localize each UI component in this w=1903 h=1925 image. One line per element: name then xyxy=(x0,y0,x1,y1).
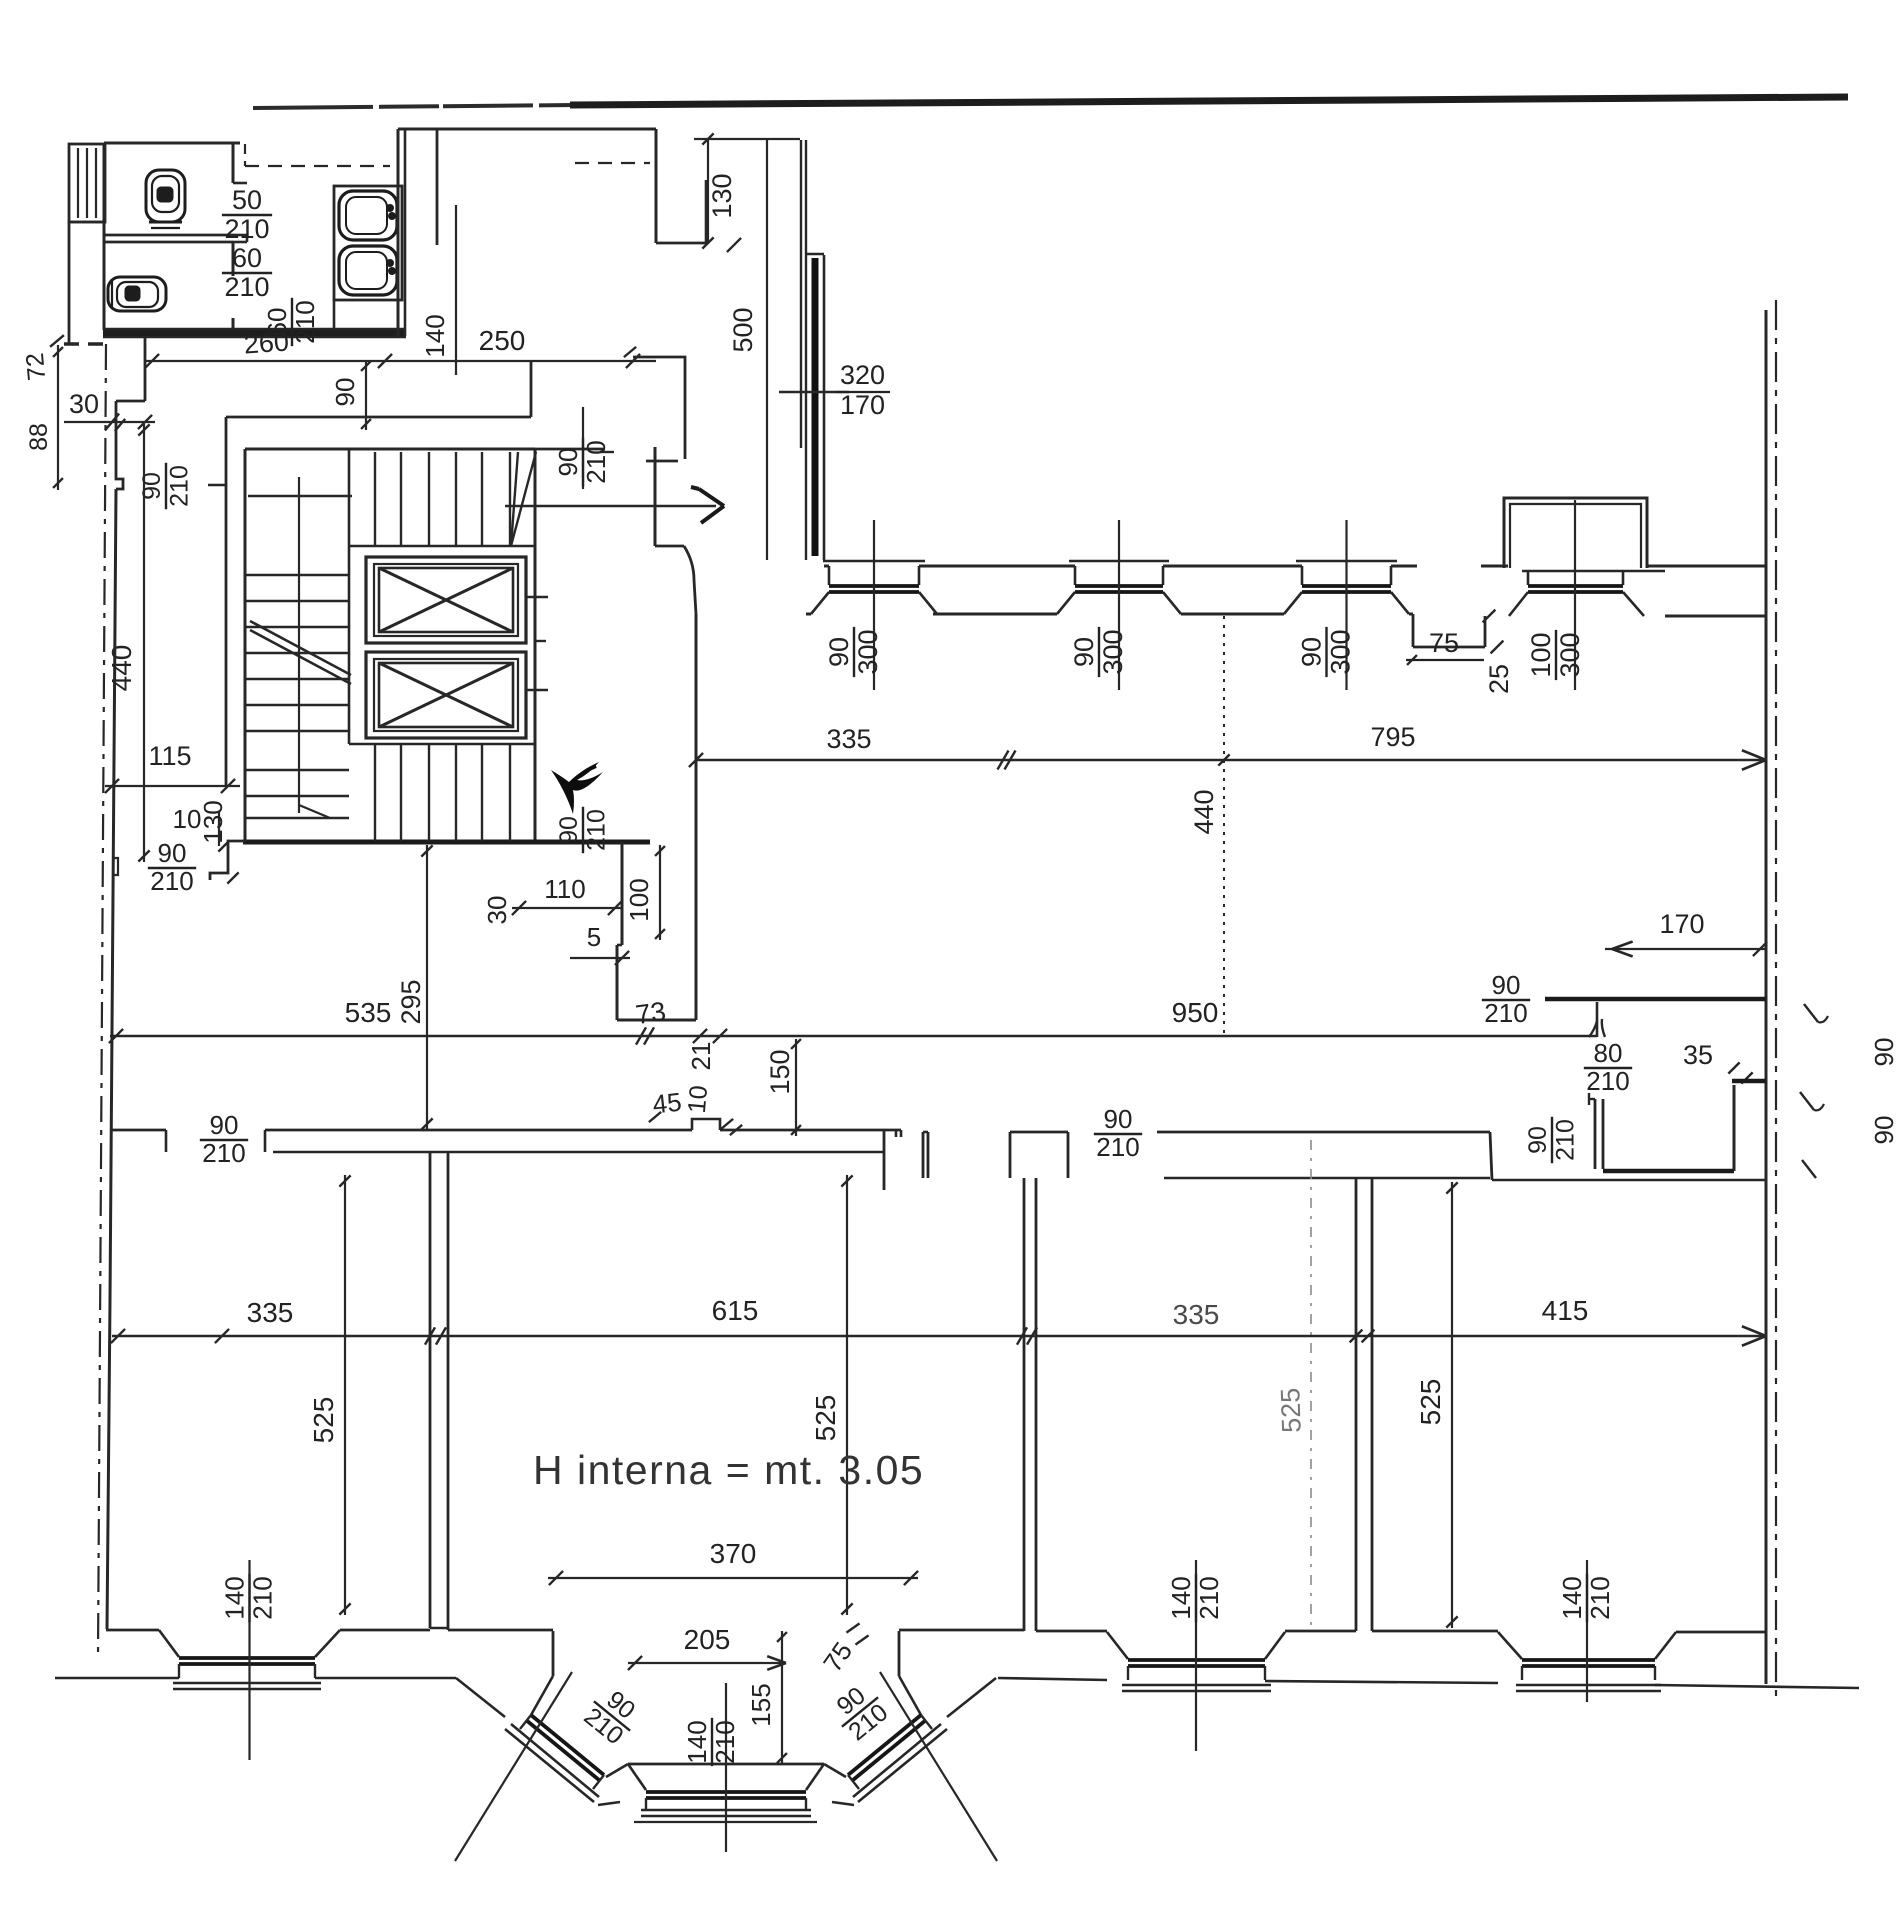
svg-text:525: 525 xyxy=(1275,1387,1307,1433)
svg-text:10: 10 xyxy=(683,1084,713,1114)
svg-text:80: 80 xyxy=(1594,1038,1623,1068)
svg-text:295: 295 xyxy=(396,979,426,1024)
svg-text:60: 60 xyxy=(232,243,262,273)
svg-text:90: 90 xyxy=(1524,1126,1552,1154)
svg-text:25: 25 xyxy=(1484,664,1514,694)
svg-text:100: 100 xyxy=(624,878,654,921)
svg-text:210: 210 xyxy=(1484,998,1527,1028)
svg-text:90: 90 xyxy=(553,448,583,477)
svg-text:50: 50 xyxy=(232,185,262,215)
svg-text:335: 335 xyxy=(826,724,871,754)
svg-text:30: 30 xyxy=(69,389,99,419)
svg-text:155: 155 xyxy=(746,1683,776,1726)
svg-text:90: 90 xyxy=(210,1110,239,1140)
svg-text:210: 210 xyxy=(582,809,610,851)
svg-text:140: 140 xyxy=(1166,1576,1196,1619)
svg-text:335: 335 xyxy=(1173,1299,1220,1330)
svg-text:H interna = mt. 3.05: H interna = mt. 3.05 xyxy=(533,1447,924,1493)
svg-text:21: 21 xyxy=(686,1042,716,1071)
svg-text:90: 90 xyxy=(824,637,854,667)
svg-text:440: 440 xyxy=(1189,789,1219,834)
svg-text:90: 90 xyxy=(555,816,583,844)
svg-text:260: 260 xyxy=(243,326,290,359)
svg-text:72: 72 xyxy=(21,352,51,382)
svg-text:90: 90 xyxy=(1869,1116,1899,1145)
svg-text:130: 130 xyxy=(707,173,737,218)
svg-text:615: 615 xyxy=(712,1295,759,1326)
svg-text:210: 210 xyxy=(1551,1119,1579,1161)
svg-text:45: 45 xyxy=(651,1087,683,1120)
svg-text:950: 950 xyxy=(1172,997,1219,1028)
svg-text:210: 210 xyxy=(1096,1132,1139,1162)
svg-text:440: 440 xyxy=(106,645,137,692)
svg-text:210: 210 xyxy=(165,465,193,507)
svg-text:795: 795 xyxy=(1370,722,1415,752)
svg-text:370: 370 xyxy=(710,1538,757,1569)
svg-text:205: 205 xyxy=(684,1624,731,1655)
svg-text:90: 90 xyxy=(1104,1104,1133,1134)
svg-text:525: 525 xyxy=(810,1395,841,1442)
svg-text:415: 415 xyxy=(1542,1295,1589,1326)
svg-text:73: 73 xyxy=(634,996,668,1030)
svg-text:210: 210 xyxy=(248,1576,278,1619)
svg-text:210: 210 xyxy=(1585,1576,1615,1619)
svg-text:170: 170 xyxy=(1659,909,1704,939)
svg-text:110: 110 xyxy=(544,874,585,904)
svg-text:500: 500 xyxy=(728,307,758,352)
svg-text:210: 210 xyxy=(224,214,269,244)
svg-text:100: 100 xyxy=(1526,632,1556,677)
svg-text:140: 140 xyxy=(420,314,450,357)
svg-text:210: 210 xyxy=(1194,1576,1224,1619)
svg-text:35: 35 xyxy=(1683,1040,1713,1070)
svg-text:300: 300 xyxy=(1325,629,1355,674)
svg-text:88: 88 xyxy=(25,423,53,451)
svg-text:140: 140 xyxy=(220,1576,250,1619)
svg-text:90: 90 xyxy=(138,472,166,500)
svg-text:535: 535 xyxy=(345,997,392,1028)
svg-text:300: 300 xyxy=(1555,632,1585,677)
svg-text:210: 210 xyxy=(290,300,320,343)
svg-text:90: 90 xyxy=(330,378,360,407)
svg-text:250: 250 xyxy=(479,325,526,356)
svg-text:210: 210 xyxy=(224,272,269,302)
svg-text:210: 210 xyxy=(202,1138,245,1168)
svg-text:90: 90 xyxy=(1869,1038,1899,1067)
svg-text:300: 300 xyxy=(1098,629,1128,674)
svg-text:300: 300 xyxy=(853,629,883,674)
svg-text:75: 75 xyxy=(1429,628,1459,658)
svg-text:90: 90 xyxy=(158,838,187,868)
svg-text:525: 525 xyxy=(308,1397,339,1444)
svg-text:130: 130 xyxy=(198,800,228,843)
svg-text:140: 140 xyxy=(1557,1576,1587,1619)
svg-text:90: 90 xyxy=(1492,970,1521,1000)
svg-text:90: 90 xyxy=(1069,637,1099,667)
svg-text:320: 320 xyxy=(840,360,885,390)
svg-text:210: 210 xyxy=(150,866,193,896)
svg-text:335: 335 xyxy=(247,1297,294,1328)
svg-text:525: 525 xyxy=(1415,1379,1446,1426)
svg-text:140: 140 xyxy=(682,1720,712,1763)
svg-text:90: 90 xyxy=(1297,637,1327,667)
svg-text:115: 115 xyxy=(148,741,191,771)
svg-text:170: 170 xyxy=(840,390,885,420)
svg-text:210: 210 xyxy=(710,1720,740,1763)
svg-text:30: 30 xyxy=(482,896,512,925)
svg-text:5: 5 xyxy=(587,922,601,952)
svg-text:210: 210 xyxy=(1586,1066,1629,1096)
svg-text:210: 210 xyxy=(581,440,611,483)
svg-text:150: 150 xyxy=(765,1049,795,1094)
